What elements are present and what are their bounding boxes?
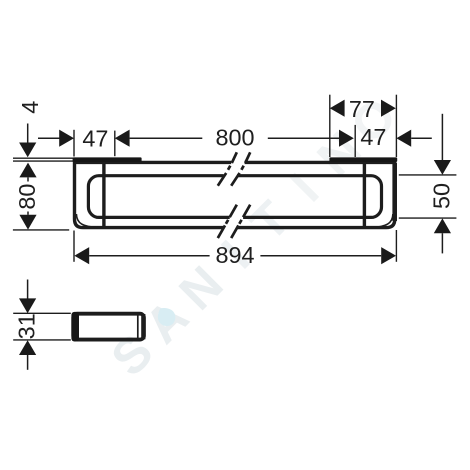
bottom-right corner detail <box>371 214 393 227</box>
wall line lower <box>13 160 74 162</box>
side view outer profile <box>73 314 144 340</box>
side view left cap <box>71 312 79 342</box>
break slash group 1 <box>218 152 250 185</box>
dimension 50 <box>429 114 455 254</box>
side view extension lines <box>13 312 71 314</box>
watermark droplet <box>158 308 176 326</box>
svg-text:800: 800 <box>215 125 254 151</box>
left wall plate <box>73 157 142 162</box>
dimension 31 <box>13 280 39 370</box>
svg-text:31: 31 <box>13 313 39 339</box>
svg-text:77: 77 <box>349 96 375 122</box>
dimension 894 <box>74 242 396 268</box>
right post edge <box>363 162 366 228</box>
towel bar outer contour <box>75 162 395 227</box>
inner window <box>88 176 381 218</box>
svg-text:47: 47 <box>82 126 108 152</box>
wall line upper <box>13 157 74 159</box>
side view inner line <box>137 315 139 340</box>
left post edge <box>102 162 105 228</box>
right edge thickening <box>392 163 397 221</box>
svg-text:4: 4 <box>17 101 43 114</box>
right wall plate <box>329 157 397 162</box>
svg-text:80: 80 <box>14 184 40 210</box>
extension lines <box>13 95 457 262</box>
break slash group 2 <box>218 205 250 238</box>
dimension 80 <box>14 163 40 230</box>
dimension 4 <box>17 101 43 158</box>
svg-text:50: 50 <box>429 183 455 209</box>
dimension row: 47 / 800 / 47 <box>38 137 432 139</box>
watermark SANITINO <box>100 87 407 387</box>
break gaps (white) <box>231 160 244 164</box>
bottom-left corner detail <box>76 214 98 227</box>
side view right cap <box>141 314 145 339</box>
svg-text:47: 47 <box>360 124 386 150</box>
dimension 77 <box>330 100 345 117</box>
svg-text:894: 894 <box>215 242 254 268</box>
